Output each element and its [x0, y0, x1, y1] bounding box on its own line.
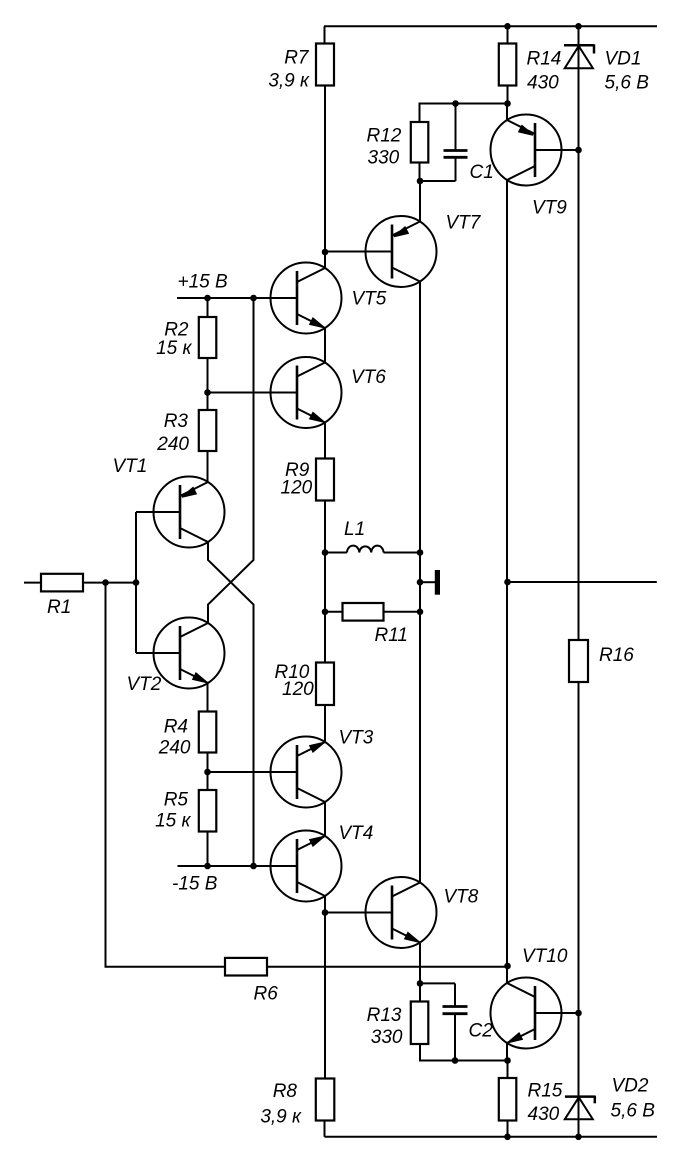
- resistor R2: [199, 317, 217, 358]
- transistor VT7: [366, 216, 437, 287]
- svg-text:+15 В: +15 В: [178, 272, 229, 293]
- wire output node to terminal: [420, 581, 435, 583]
- wire R13 bottom link: [420, 1044, 455, 1061]
- wire VT2 base: [136, 652, 180, 654]
- resistor R16: [569, 640, 588, 682]
- svg-text:VD2: VD2: [612, 1076, 649, 1097]
- node R6 / output line: [504, 963, 511, 970]
- wire R11 left lead: [325, 611, 343, 613]
- wire R16 through VT10 base and VD2 to bottom rail: [578, 682, 580, 1137]
- svg-text:5,6 В: 5,6 В: [611, 1101, 656, 1122]
- svg-text:430: 430: [527, 73, 559, 94]
- svg-text:R6: R6: [254, 984, 279, 1005]
- svg-text:C2: C2: [469, 1021, 494, 1042]
- transistor VT5: [271, 263, 342, 334]
- node R14/VT9 emitter: [504, 100, 511, 107]
- resistor R7: [316, 44, 334, 86]
- node L1 right: [417, 549, 424, 556]
- wire C1 bottom link: [420, 180, 456, 182]
- resistor R4: [199, 712, 217, 753]
- resistor R15: [499, 1078, 517, 1121]
- wire R2 top lead: [207, 298, 209, 317]
- node R1 / feedback: [102, 579, 109, 586]
- wire -15V rail to VT4 base: [178, 865, 298, 867]
- transistor VT8: [366, 877, 437, 948]
- wire R12 bottom lead: [419, 163, 421, 182]
- wire VT9 collector to VT10 collector (output line): [506, 180, 508, 966]
- wire VT10 emitter lead: [506, 1043, 508, 1061]
- output terminal: [435, 570, 440, 595]
- node bottom rail / R15: [504, 1134, 511, 1141]
- node R2/R3/VT6 base: [204, 389, 211, 396]
- transistor VT9: [491, 115, 562, 186]
- capacitor C1: [444, 104, 468, 182]
- wire VT9 base: [535, 149, 579, 151]
- wire L1 left lead: [325, 552, 347, 554]
- svg-text:R14: R14: [527, 49, 562, 70]
- node C1 top: [452, 100, 459, 107]
- node -15V / VT1 collector: [250, 863, 257, 870]
- svg-text:3,9 к: 3,9 к: [260, 1107, 302, 1128]
- svg-text:120: 120: [281, 478, 313, 499]
- svg-text:R13: R13: [367, 1005, 402, 1026]
- svg-text:R1: R1: [47, 597, 71, 618]
- wire +15V rail to VT5 base: [177, 297, 297, 299]
- wire R4 to R5 node: [207, 753, 209, 791]
- svg-text:R7: R7: [284, 48, 310, 69]
- wire R3 to VT1 emitter: [207, 451, 209, 482]
- node R4/R5/VT3 base: [204, 769, 211, 776]
- wire R5 to -15V rail: [207, 832, 209, 867]
- svg-text:C1: C1: [470, 162, 494, 183]
- svg-text:VT9: VT9: [532, 198, 567, 219]
- wire R10 to VT3: [324, 705, 326, 742]
- resistor R8: [316, 1079, 335, 1121]
- transistor VT4: [271, 831, 342, 902]
- node output line tap: [504, 579, 511, 586]
- wire VT10 collector lead: [506, 966, 508, 983]
- resistor R14: [499, 44, 517, 86]
- wire VT10 base: [535, 1012, 579, 1014]
- svg-text:VT5: VT5: [352, 289, 387, 310]
- transistor VT6: [271, 357, 342, 428]
- node +15V / R2: [204, 295, 211, 302]
- wire VT1 collector to -15V rail: [208, 542, 254, 866]
- svg-text:-15 В: -15 В: [172, 874, 218, 895]
- wire VT1/VT2 base tie: [135, 512, 137, 653]
- wire VT8 emitter to R13 node: [419, 943, 421, 984]
- svg-text:3,9 к: 3,9 к: [268, 71, 310, 92]
- node R11 right: [417, 609, 424, 616]
- node R7/VT5 collector/VT7 base: [322, 249, 329, 256]
- resistor R11: [343, 603, 384, 621]
- wire R13 top lead: [419, 983, 421, 1001]
- node +15V / VT2 collector: [250, 295, 257, 302]
- capacitor C2: [443, 983, 468, 1060]
- svg-text:R3: R3: [164, 411, 189, 432]
- wire R15 bottom lead: [507, 1121, 509, 1137]
- svg-text:330: 330: [368, 148, 400, 169]
- wire R7 bottom to VT5 collector node: [324, 86, 326, 268]
- node top rail / VD1: [575, 23, 582, 30]
- svg-text:VT4: VT4: [339, 823, 374, 844]
- wire R2 to R3 node: [207, 358, 209, 410]
- resistor R10: [316, 663, 334, 706]
- zener diode VD1: [564, 44, 594, 68]
- svg-text:VT2: VT2: [127, 674, 162, 695]
- node VT10 emitter / R15: [504, 1057, 511, 1064]
- wire input stub: [24, 582, 41, 584]
- transistor VT10: [491, 978, 562, 1049]
- wire R14 bottom lead: [507, 86, 509, 104]
- wire -supply bottom rail: [325, 1136, 658, 1138]
- wire VT9 emitter lead: [506, 104, 508, 121]
- svg-text:VD1: VD1: [605, 49, 642, 70]
- svg-text:R5: R5: [164, 790, 189, 811]
- svg-text:VT10: VT10: [522, 946, 568, 967]
- wire C2 top link: [420, 982, 455, 984]
- wire VT5 emitter to VT6 collector: [324, 328, 326, 363]
- node -15V / R5: [204, 863, 211, 870]
- svg-text:R15: R15: [528, 1081, 563, 1102]
- node VT4 emitter / VT8 base: [322, 909, 329, 916]
- wire +supply top rail: [324, 25, 657, 27]
- wire R11 right lead: [384, 611, 421, 613]
- wire R12 top to R14 node: [420, 104, 508, 123]
- svg-text:240: 240: [158, 738, 191, 759]
- transistor VT1: [154, 477, 225, 548]
- resistor R5: [199, 790, 217, 832]
- svg-text:R16: R16: [599, 645, 634, 666]
- wire R14 top lead: [507, 26, 509, 43]
- wire VT4 emitter to R8: [324, 896, 326, 1079]
- wire C2 bottom to R15 node: [455, 1060, 508, 1062]
- wire VT1 base: [136, 511, 180, 513]
- svg-text:VT1: VT1: [113, 456, 148, 477]
- resistor R3: [199, 410, 217, 451]
- svg-text:430: 430: [528, 1104, 560, 1125]
- wire R9 to R10 through L1/R11 nodes: [324, 501, 326, 663]
- svg-text:R11: R11: [375, 625, 408, 646]
- resistor R9: [316, 459, 334, 501]
- svg-text:R8: R8: [273, 1081, 298, 1102]
- wire R4/R5 node to VT3 base: [208, 771, 298, 773]
- node VT9 base / VD1 line: [575, 147, 582, 154]
- resistor R13: [411, 1002, 429, 1045]
- wire L1 right lead: [384, 552, 421, 554]
- wire R7 top lead: [324, 26, 326, 43]
- svg-text:5,6 В: 5,6 В: [605, 73, 650, 94]
- wire VT6 emitter to R9: [324, 423, 326, 459]
- node VT10 base / VD2 line: [575, 1010, 582, 1017]
- svg-text:VT7: VT7: [446, 213, 482, 234]
- node R12/C1/VT7 emitter: [417, 178, 424, 185]
- node R1 / bases: [133, 579, 140, 586]
- transistor VT3: [271, 737, 342, 808]
- node R11 left: [322, 609, 329, 616]
- wire R2/R3 node to VT6 base: [208, 392, 298, 394]
- wire VT2 emitter to R4: [207, 683, 209, 712]
- wire R12 node to VT7 emitter: [419, 181, 421, 222]
- svg-text:VT6: VT6: [351, 367, 386, 388]
- node C2 bottom: [452, 1057, 459, 1064]
- svg-text:L1: L1: [344, 519, 365, 540]
- zener diode VD2: [565, 1096, 595, 1120]
- wire R8 bottom lead: [324, 1121, 326, 1137]
- svg-text:VT3: VT3: [339, 728, 374, 749]
- wire output stub: [508, 581, 657, 583]
- wire R15 top lead: [507, 1061, 509, 1079]
- svg-text:15 к: 15 к: [156, 338, 192, 359]
- wire VD1 branch through VT9 base to R16: [578, 26, 580, 640]
- svg-text:330: 330: [371, 1027, 403, 1048]
- node L1 left: [322, 549, 329, 556]
- resistor R6: [225, 958, 267, 976]
- svg-text:120: 120: [282, 679, 314, 700]
- transistor VT2: [154, 618, 225, 689]
- wire VT3 to VT4: [324, 802, 326, 836]
- wire feedback from R1 node down to R6: [106, 583, 226, 967]
- svg-text:15 к: 15 к: [155, 811, 191, 832]
- wire R6 to output node: [267, 966, 508, 968]
- node bottom rail / VD2: [575, 1134, 582, 1141]
- wire VT5 collector node to VT7 base: [325, 251, 393, 253]
- resistor R12: [411, 122, 429, 163]
- inductor L1: [347, 546, 384, 553]
- wire VT4 emitter node to VT8 base: [325, 912, 393, 914]
- svg-text:VT8: VT8: [444, 887, 479, 908]
- resistor R1: [41, 574, 83, 592]
- node R13/C2/VT8 emitter: [417, 980, 424, 987]
- node top rail / R14: [504, 23, 511, 30]
- node output terminal tap: [417, 579, 424, 586]
- svg-text:R4: R4: [164, 717, 188, 738]
- svg-text:R12: R12: [367, 126, 402, 147]
- wire VT7 collector to VT8 collector: [419, 282, 421, 883]
- wire R1 to base node: [83, 582, 136, 584]
- svg-text:240: 240: [156, 434, 189, 455]
- wire VT2 collector to +15V rail: [208, 298, 254, 623]
